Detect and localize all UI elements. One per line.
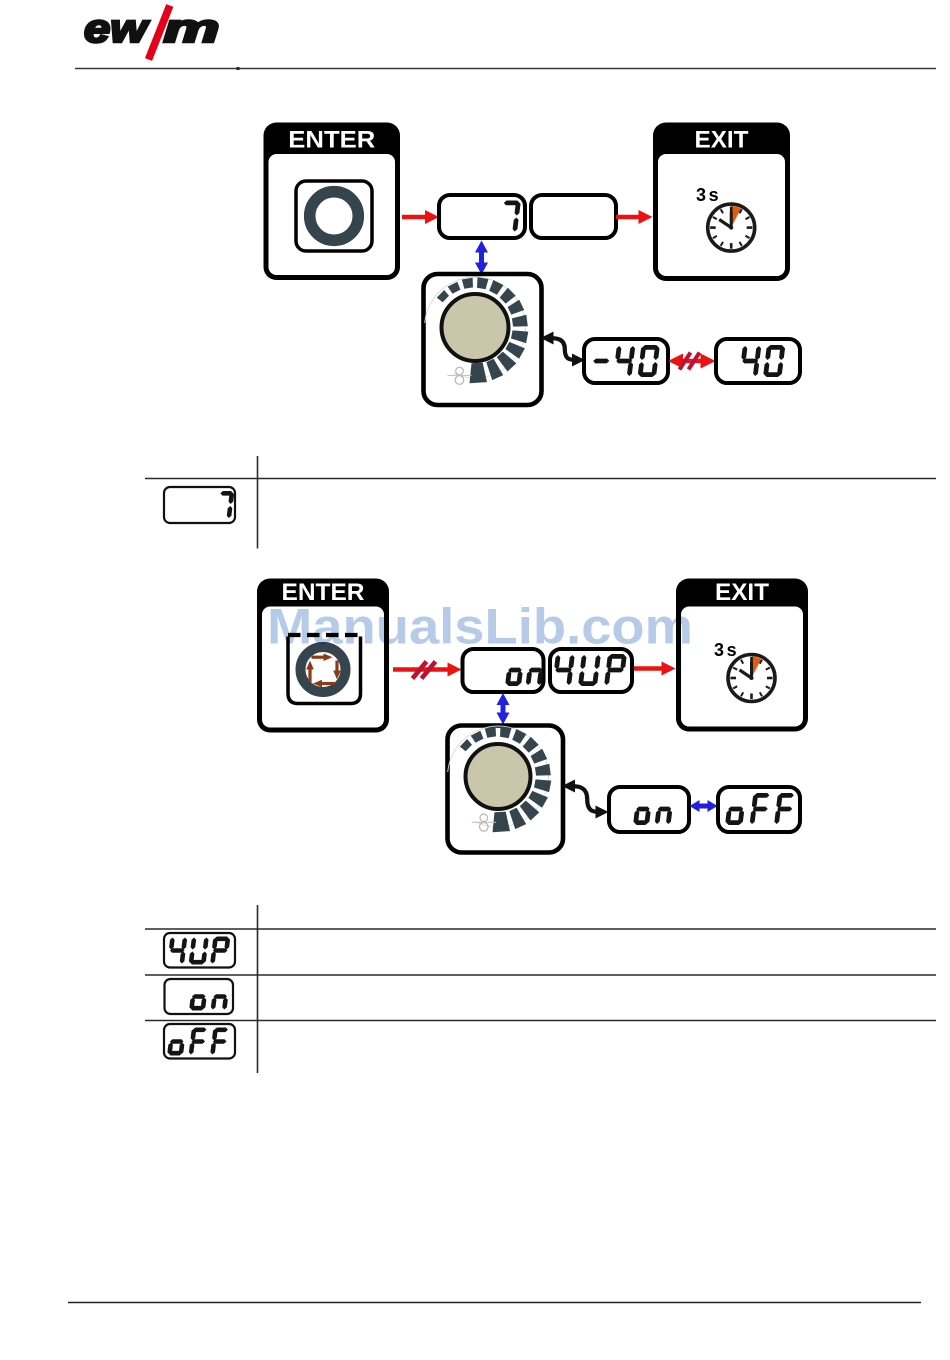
table 2 display 4UP — [164, 933, 235, 968]
display 40 — [716, 339, 800, 383]
red arrow ENTER1 to display — [402, 210, 439, 224]
blue up-down arrow 2 — [497, 693, 510, 725]
red arrow display to EXIT1 — [616, 210, 653, 224]
ENTER box 2 — [257, 579, 389, 733]
footer rule — [68, 1302, 921, 1304]
display oFF — [718, 787, 800, 832]
EXIT box 1 — [653, 123, 790, 282]
table 2 display on — [165, 979, 234, 1014]
empty display — [531, 195, 616, 238]
EXIT box 2 — [676, 579, 808, 732]
svg-text:m: m — [164, 7, 220, 51]
header rule — [75, 67, 936, 70]
display -40 — [584, 339, 668, 383]
blue up-down arrow 1 — [475, 241, 488, 275]
display on — [463, 649, 544, 692]
table 2 rules — [145, 905, 936, 1073]
svg-text:ew: ew — [84, 7, 150, 51]
red range arrow with slashes — [668, 353, 716, 370]
red arrow with slashes ENTER2 to on — [393, 662, 462, 679]
squiggle arrow knob2 to on — [562, 780, 609, 819]
table 1 rules — [145, 456, 936, 549]
rotary knob box 2 — [448, 726, 564, 853]
svg-text:3 s: 3 s — [696, 185, 719, 205]
svg-text:ENTER: ENTER — [288, 127, 375, 154]
blue left-right arrow — [690, 800, 718, 812]
squiggle arrow knob1 to -40 — [541, 332, 586, 367]
ManualsLib watermark — [267, 599, 693, 655]
svg-text:3 s: 3 s — [714, 640, 737, 660]
table 2 display oFF — [164, 1024, 235, 1059]
table 1 display 7 — [164, 487, 235, 523]
svg-text:EXIT: EXIT — [715, 579, 769, 606]
rotary knob box 1 — [424, 274, 542, 405]
svg-text:ManualsLib.com: ManualsLib.com — [267, 599, 693, 655]
red arrow 4UP to EXIT2 — [634, 662, 676, 676]
ENTER box 1 — [264, 123, 401, 281]
display 4UP — [550, 649, 632, 692]
display on 2 — [609, 787, 689, 832]
ewm logo — [84, 6, 220, 60]
svg-text:EXIT: EXIT — [695, 127, 749, 154]
display 7 — [439, 195, 525, 238]
